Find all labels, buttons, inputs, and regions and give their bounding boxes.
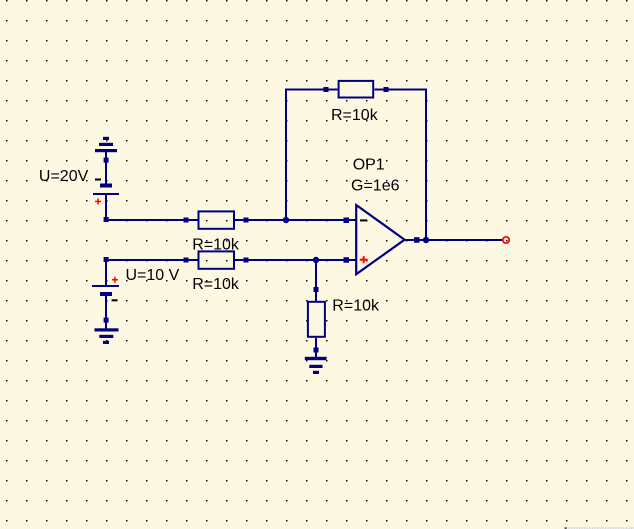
ground (above battery V1) (95, 137, 117, 158)
ground (below R3) (305, 352, 327, 374)
wire R1 to node A (246, 219, 286, 221)
wire node B to op-amp non-inverting input (316, 259, 356, 261)
wire node B down to R3 (315, 260, 317, 290)
wire node A to op-amp inverting input (286, 219, 356, 221)
wire R2 to node B (246, 259, 316, 261)
wire battery V2 to R2 (106, 259, 186, 261)
wire output (426, 239, 503, 241)
resistor R2 (bottom input resistor) (184, 251, 249, 268)
battery V2 (U=10V) (92, 257, 119, 323)
junction node B (non-inverting input net) (313, 257, 319, 263)
wire feedback right vertical (425, 89, 427, 241)
svg-text:R=10k: R=10k (332, 298, 380, 315)
svg-text:OP1: OP1 (353, 156, 385, 173)
resistor R_fb (feedback) (324, 81, 389, 98)
junction node A (inverting input net) (283, 217, 289, 223)
svg-text:R=10k: R=10k (192, 276, 240, 293)
resistor R1 (top input resistor) (184, 211, 249, 228)
output terminal (open node) (503, 237, 509, 243)
svg-text:U=10 V: U=10 V (126, 267, 180, 284)
svg-text:G=1e6: G=1e6 (351, 178, 400, 195)
svg-text:U=20V: U=20V (39, 168, 89, 185)
wire feedback top right (386, 89, 426, 91)
svg-text:R=10k: R=10k (331, 107, 379, 124)
battery V1 (U=20V) (93, 158, 119, 222)
junction output node (423, 237, 429, 243)
wire battery V1 to R1 (106, 219, 186, 221)
wire feedback top left (285, 89, 326, 91)
resistor R3 (to ground) (308, 287, 325, 353)
op-amp OP1 (344, 205, 427, 274)
wire feedback left vertical (285, 89, 287, 221)
ground (below battery V2) (95, 322, 119, 344)
